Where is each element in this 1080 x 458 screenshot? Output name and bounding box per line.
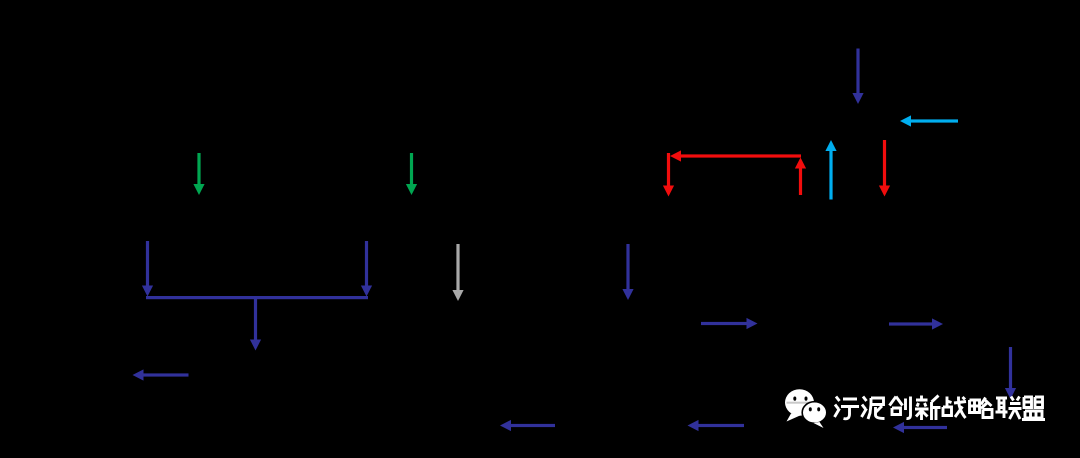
wechat logo big bubble <box>785 389 814 421</box>
green down arrow 1 <box>193 153 204 195</box>
glyph 污 <box>835 397 860 419</box>
wechat logo small bubble <box>802 402 827 428</box>
cyan left arrow upper right <box>900 115 958 126</box>
glyph 战 <box>943 397 966 419</box>
bracket right vertical down arrow <box>361 241 372 297</box>
gray down arrow <box>452 244 463 301</box>
glyph 创 <box>890 397 911 419</box>
red left vertical down arrow <box>663 153 674 197</box>
glyph 泥 <box>862 397 885 420</box>
bracket left vertical down arrow <box>142 241 153 297</box>
red right vertical up arrow <box>795 158 806 196</box>
glyph 联 <box>996 397 1022 420</box>
cyan up arrow <box>825 140 836 200</box>
watermark text 污泥创新战略联盟 (hand-drawn glyph strokes) <box>835 396 1046 421</box>
blue left arrow bottom left <box>500 420 555 431</box>
glyph 新 <box>915 396 941 421</box>
glyph 盟 <box>1022 397 1045 420</box>
red down arrow right <box>879 140 890 197</box>
blue left arrow bottom right under text <box>893 422 947 433</box>
green down arrow 2 <box>406 153 417 195</box>
red connector horizontal line <box>670 150 801 161</box>
blue right arrow right <box>889 318 943 329</box>
blue down arrow far right <box>1005 347 1016 399</box>
blue down arrow center <box>622 244 633 300</box>
bracket center stem down arrow <box>250 297 261 351</box>
dark blue down arrow top right <box>852 49 863 105</box>
blue left arrow left <box>133 369 189 380</box>
blue left arrow bottom middle <box>688 420 745 431</box>
bracket horizontal line <box>146 296 368 299</box>
glyph 略 <box>970 398 993 418</box>
blue right arrow center <box>701 318 758 329</box>
